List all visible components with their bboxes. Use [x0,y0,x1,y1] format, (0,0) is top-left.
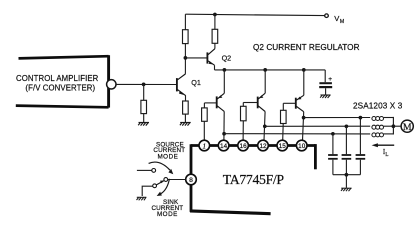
transistor T3 (2SA1203 output 3) [296,95,304,111]
wire: r1 down to pin 1 [203,121,205,140]
resistor rD (Q1 emitter) [183,101,189,114]
wire: phase line 3 [224,133,370,135]
svg-text:Q2: Q2 [222,53,232,62]
IC outline: right edge stub [314,144,317,169]
wire: cap3 drop [359,118,361,155]
pin 15 [277,140,288,151]
node: cap1 tap on line 3 [331,132,335,136]
svg-text:L: L [385,153,388,158]
svg-text:MODE: MODE [157,211,178,218]
node: cap common [345,173,349,177]
wire: T3 base [283,102,295,104]
svg-text:(F/V CONVERTER): (F/V CONVERTER) [25,84,95,93]
svg-text:10: 10 [298,143,306,150]
svg-text:TA7745F/P: TA7745F/P [223,172,285,187]
wire: Q2 base from node [185,57,206,59]
resistor R3 (T3 base, to pin 15) [281,110,287,123]
wire: phase line 1 [304,117,371,119]
coil L3 [372,133,384,137]
ground (switch) [137,197,147,200]
pin 8 [186,174,197,185]
wire: rC to ground [143,114,145,123]
resistor rC (Q1 base pulldown) [141,100,147,113]
wire: cap1 drop [332,134,334,154]
wire: L1 to merge rail [384,117,394,119]
ground (below rD) [180,123,191,126]
IC TA7745 outline: pin row rail [191,144,315,147]
resistor R1 (T1 base, to pin 1) [202,108,208,121]
wire: rail down to rB [214,15,216,30]
wire: T1 base corner to r1 [203,103,205,108]
control amplifier output terminal [107,80,116,89]
transistor T1 (2SA1203 output 1) [217,93,225,111]
wire: to motor [393,125,401,127]
control amplifier label [16,74,99,93]
wire: cap bottoms to common bus [333,160,361,175]
pin 14 [218,140,229,151]
svg-text:CONTROL AMPLIFIER: CONTROL AMPLIFIER [16,74,99,83]
wire: regulator bus [215,69,326,71]
wire: T3 emitter up to bus [303,70,305,95]
control amplifier block [16,55,109,107]
wire: T2 emitter up to bus [264,70,266,93]
svg-text:MODE: MODE [157,154,178,161]
wire: L3 to merge rail [384,133,394,135]
motor M [401,120,413,132]
switch sink contact [153,184,157,188]
svg-text:+: + [328,76,332,83]
svg-text:2SA1203 X 3: 2SA1203 X 3 [353,101,403,110]
switch source contact [152,169,156,173]
svg-text:M: M [340,19,344,25]
wire: C1 to ground [325,88,327,95]
wire: rB to Q2 collector [214,43,216,48]
resistor rA [183,30,189,44]
resistor rB (Q2 collector) [212,29,218,43]
sink mode arrow [157,179,170,196]
node: t1 emitter on bus [223,68,227,72]
Q1 emitter arrow [179,91,184,95]
switch lever arrow [160,180,164,183]
coil L2 [372,125,384,129]
svg-text:Q1: Q1 [191,78,201,87]
node: Q1 base / rC junction [142,83,146,87]
svg-text:12: 12 [259,143,267,150]
wire: cap2 drop [345,126,347,154]
wire: top supply rail to VM [185,14,324,15]
pin 16 [238,140,249,151]
label SINK CURRENT MODE [151,199,183,218]
pin 1 [199,140,210,151]
T1 emitter arrow (PNP) [218,95,222,98]
svg-text:Q2 CURRENT REGULATOR: Q2 CURRENT REGULATOR [253,43,360,52]
node: cap3 tap on line 1 [359,116,363,120]
wire: rD to ground [184,114,186,122]
node: phase line 1 tap [302,116,306,120]
wire: r3 down to pin 15 [282,124,285,141]
wire: bus end down to smoothing cap [324,70,326,82]
svg-text:14: 14 [220,143,228,150]
node: phase line 3 tap [222,132,226,136]
label SOURCE CURRENT MODE [153,141,185,160]
wire: phase line 2 [265,125,370,127]
svg-text:M: M [403,122,412,133]
wire: T1 collector down to pin 14 [223,111,225,140]
wire: Q2 emitter to bus [214,65,216,70]
wire: coil merge rail [392,117,394,135]
wire: Q1 collector up through rA chain [184,44,186,74]
switch common contact [164,178,168,182]
svg-text:1: 1 [202,142,206,150]
IC outline: left edge [190,144,193,212]
source mode arrow [149,162,174,174]
coil L1 [372,117,384,121]
wire: sink contact to ground [142,186,153,196]
transistor T2 (2SA1203 output 2) [258,93,266,111]
wire: source-side contact lead [137,169,152,171]
transistor Q2 [207,49,215,65]
wire: T3 collector down to pin 10 [303,112,304,141]
label IL [383,148,389,158]
capacitor C2 (phase 3) [328,155,338,159]
node: motor feed [392,124,396,128]
wire: T2 base [243,102,257,104]
node: phase line 2 tap [263,124,267,128]
capacitor C1 (electrolytic on bus) [319,83,332,87]
node: rB top on rail [213,13,217,17]
switch lever [156,181,164,185]
wire: cap common to ground [345,175,347,188]
wire: T1 emitter up to bus [223,70,225,93]
IC outline: bottom edge [190,211,271,214]
label VM [334,14,344,25]
wire: junction down to resistor rC [143,84,145,100]
resistor R2 (T2 base, to pin 16) [241,106,247,121]
load current arrow IL [372,143,395,147]
svg-text:16: 16 [240,143,248,150]
pin 12 [258,140,269,151]
wire: T2 collector down to pin 12 [264,112,265,141]
node: cap2 tap on line 2 [345,124,349,128]
transistor Q1 [177,74,186,96]
wire: rA top to supply rail [184,14,186,30]
wire: T3 base corner to r3 [282,103,284,110]
wire: T1 base [204,102,216,104]
pin 10 [296,140,307,151]
ground (cap bank) [341,188,352,191]
capacitor C3 (phase 2) [342,155,352,159]
wire: r2 down to pin 16 [242,121,244,141]
node: t2 emitter on bus [263,68,267,72]
T2 emitter arrow (PNP) [259,95,263,98]
Q2 emitter arrow [209,61,214,64]
terminal VM [325,14,329,18]
node: t3 emitter on bus [302,68,306,72]
svg-text:8: 8 [189,177,193,184]
wire: Q1 emitter to rD [185,95,187,101]
ground (below C1) [320,95,331,98]
wire: L2 to merge rail [384,125,394,127]
wire: pin 8 to switch common [166,179,186,181]
svg-text:15: 15 [279,143,287,150]
wire: amp output to Q1 base [116,83,176,85]
ground (below rC) [138,123,149,126]
capacitor C4 (phase 1) [356,155,366,159]
wire: T2 base corner to r2 [242,103,244,107]
T3 emitter arrow (PNP) [297,97,301,100]
node: Q2 base tap [184,56,188,60]
